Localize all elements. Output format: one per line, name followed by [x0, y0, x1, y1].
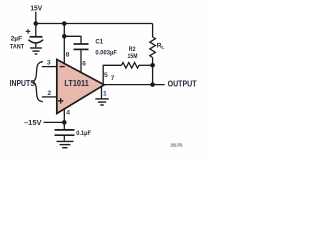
svg-text:1: 1: [103, 90, 107, 97]
op-amp inverting input mark: [60, 66, 65, 68]
capacitor C3 0.1uF plates: [55, 130, 75, 135]
wire pin 1 stub to ground: [101, 86, 103, 98]
svg-text:7: 7: [111, 75, 115, 82]
wire -15V lead: [44, 121, 65, 123]
wire pin 8 supply branch: [63, 24, 65, 65]
svg-text:2: 2: [47, 90, 51, 97]
svg-text:0.003µF: 0.003µF: [95, 50, 117, 57]
op-amp non-inverting input mark: [58, 98, 64, 104]
wire right rail down to RL: [152, 24, 154, 38]
resistor R2 15M: [122, 63, 140, 69]
svg-text:LT1011: LT1011: [64, 79, 89, 88]
svg-text:TANT: TANT: [10, 44, 25, 51]
polarity plus of C2: [26, 29, 31, 34]
capacitor C3 lower stem: [63, 136, 65, 141]
wire RL bottom to output junction: [152, 58, 154, 85]
ground below C2: [30, 48, 42, 54]
wire input pin 2: [42, 96, 57, 98]
ground below C3: [57, 141, 74, 147]
wire top +V rail: [36, 23, 153, 25]
wire input pin 3: [42, 66, 57, 68]
resistor RL: [150, 37, 156, 58]
junction dot 15V / rail / C2: [34, 21, 39, 26]
junction dot -15V / pin4 / C3: [62, 120, 67, 125]
wire output: [104, 84, 165, 86]
ground at pin 1: [95, 99, 108, 105]
junction dot pin8 branch on rail: [62, 21, 67, 26]
svg-text:3: 3: [47, 60, 51, 67]
wire pin 6 stub below C1: [80, 50, 82, 73]
capacitor C3 stem from -15V junction: [63, 122, 65, 129]
input brace: [33, 62, 43, 102]
junction dot R2 / rail: [150, 63, 155, 68]
junction dot output / rail: [150, 82, 155, 87]
capacitor C1 plates: [74, 44, 89, 49]
svg-text:OUTPUT: OUTPUT: [168, 79, 197, 88]
svg-text:–15V: –15V: [24, 118, 42, 127]
svg-text:4: 4: [66, 109, 70, 116]
wire pin 5 stub and R2 left lead: [103, 65, 121, 84]
capacitor C2 2uF TANT plates: [28, 37, 43, 43]
svg-text:INPUTS: INPUTS: [10, 79, 35, 88]
svg-text:R2: R2: [129, 46, 136, 53]
svg-text:C1: C1: [95, 39, 103, 46]
capacitor C2 stem from rail: [35, 24, 37, 37]
junction dot C1 branch on pin8 wire: [62, 34, 67, 39]
op-amp U1 LT1011: [57, 60, 104, 114]
svg-text:8: 8: [66, 51, 70, 58]
wire 15V lead: [35, 12, 37, 24]
svg-text:5: 5: [104, 72, 108, 79]
wire R2 right lead to rail: [139, 64, 153, 66]
svg-text:0.1µF: 0.1µF: [76, 130, 91, 137]
svg-text:15M: 15M: [128, 53, 138, 60]
svg-text:6: 6: [82, 61, 86, 68]
svg-text:L: L: [161, 45, 164, 51]
wire C1 branch from pin8 wire: [64, 36, 81, 43]
svg-text:2µF: 2µF: [11, 35, 23, 42]
wire pin 4 stub: [63, 109, 65, 123]
svg-text:1011 F01: 1011 F01: [170, 143, 183, 148]
svg-text:15V: 15V: [30, 4, 42, 13]
capacitor C2 lower stem: [35, 44, 37, 48]
